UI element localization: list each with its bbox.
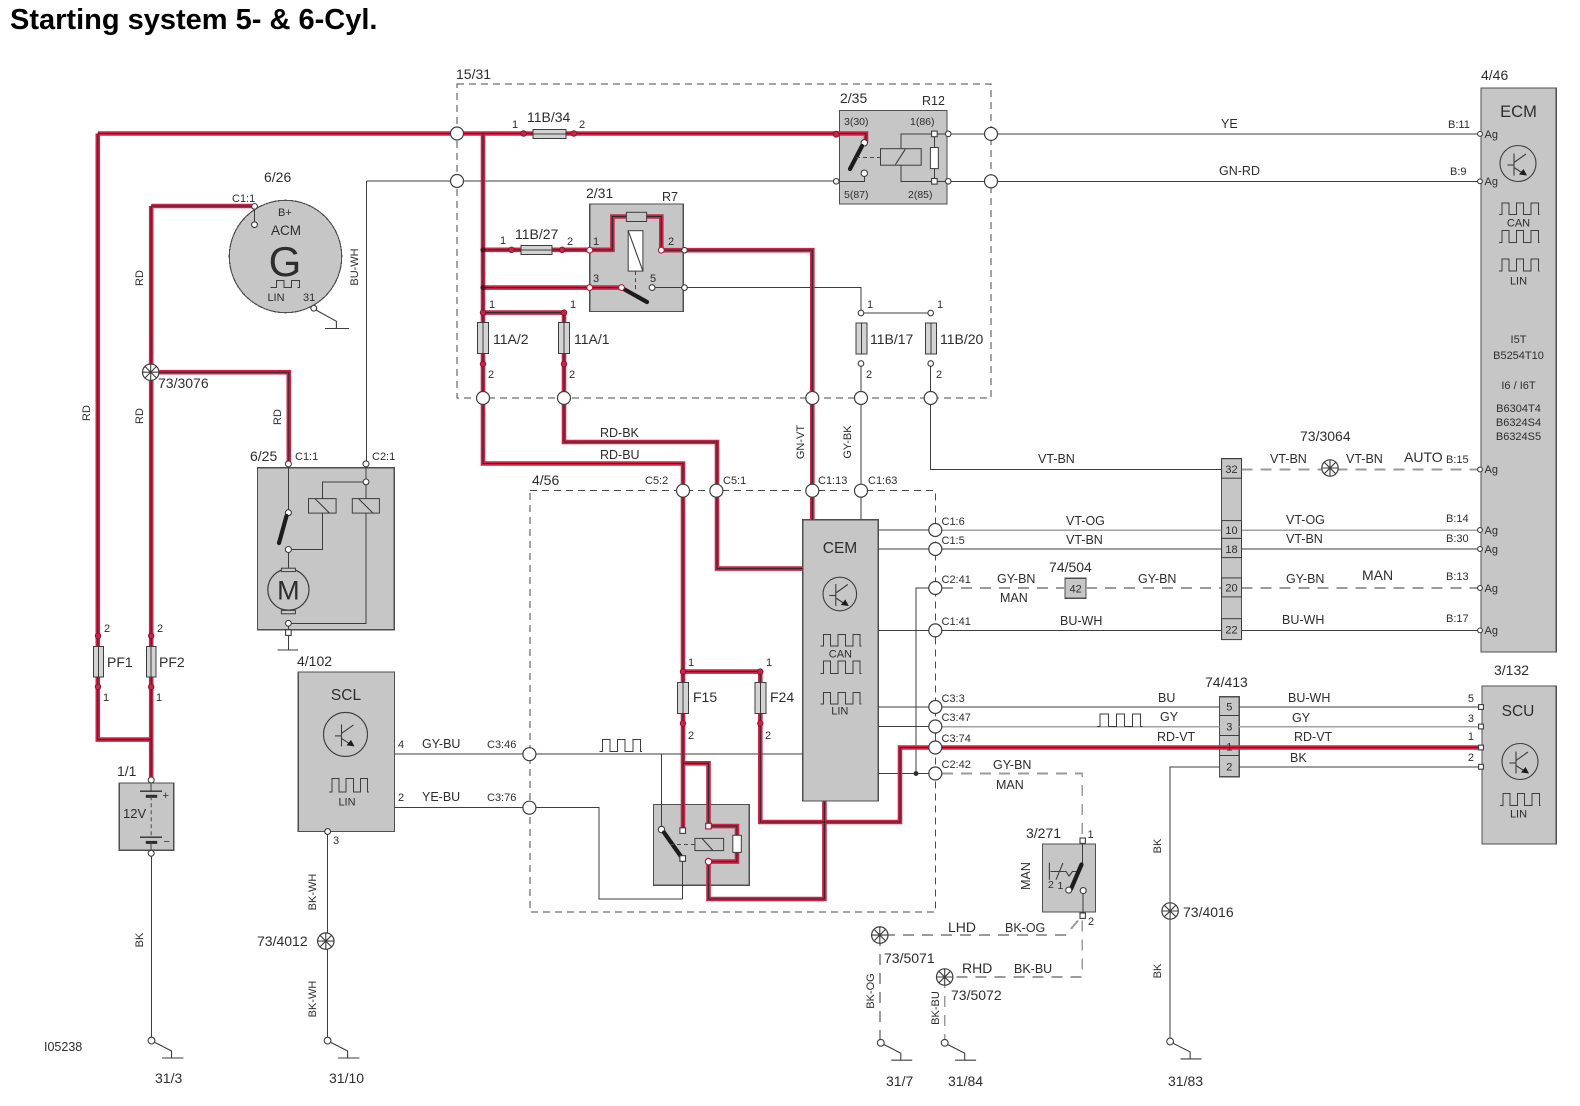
dashed wire BK-BU from splice 73/5072 to ground 31/84 [944, 977, 946, 1041]
svg-text:73/5071: 73/5071 [884, 950, 935, 966]
svg-text:1: 1 [489, 299, 495, 311]
svg-text:2: 2 [569, 369, 575, 381]
svg-text:C2:1: C2:1 [372, 451, 395, 463]
wire starter motor internal: C1:1 to switch [287, 466, 289, 513]
wire generator pin 31 to ground [315, 310, 336, 329]
node C3:47 [929, 720, 942, 733]
starter 6/25 hold-in coil [352, 499, 379, 513]
wire YE-BU from SCL pin 2 to relay switch [395, 808, 683, 900]
svg-text:CAN: CAN [1507, 218, 1530, 230]
svg-text:B6324S5: B6324S5 [1496, 431, 1541, 443]
wire 3/271 internal: pin 1 lead [1082, 844, 1084, 863]
splice 73/5071 [872, 927, 888, 943]
wire 2/35 internal: coil bottom to pin 2(85) [901, 165, 947, 181]
relay 2/31 top resistor [626, 212, 646, 221]
CEM transistor icon [823, 577, 857, 611]
wire RD link fuse F15 to fuse F24 pin 1 [683, 669, 760, 674]
svg-text:B:30: B:30 [1446, 533, 1469, 545]
wire GY from connector 74/413 pin 3 to SCU pin 3 [1239, 726, 1480, 728]
svg-text:2: 2 [1048, 879, 1054, 891]
svg-text:BK-OG: BK-OG [1005, 921, 1045, 935]
starter 6/25 case ground square [286, 630, 292, 636]
node C3:46 [523, 748, 536, 761]
splice 73/4012 [318, 933, 334, 949]
fuse 11B/27 terminals 1 and 2 [509, 247, 515, 253]
wire VT-OG from C1:6 to connector pin 10 [935, 529, 1221, 531]
svg-text:LIN: LIN [1510, 276, 1527, 288]
battery 1/1 terminals [148, 777, 154, 783]
SCU LIN icon [1500, 794, 1541, 806]
svg-text:2: 2 [579, 119, 585, 131]
switch 3/271 contacts [1066, 887, 1072, 893]
svg-text:GY-BN: GY-BN [1138, 572, 1176, 586]
svg-text:4/56: 4/56 [532, 472, 559, 488]
svg-text:C1:1: C1:1 [232, 193, 255, 205]
relay 2/35 resistor [930, 148, 938, 169]
svg-text:RD-BU: RD-BU [600, 448, 640, 462]
svg-text:1: 1 [867, 299, 873, 311]
wire starter internal: switch to motor [287, 550, 289, 570]
svg-text:31: 31 [303, 292, 315, 304]
wire from BU-WH up corner to relay 2/35 pin 5(87) [366, 180, 835, 182]
svg-text:31/83: 31/83 [1168, 1073, 1203, 1089]
svg-text:6/26: 6/26 [264, 169, 291, 185]
wire generator B+ terminal stub [254, 206, 256, 224]
svg-text:3: 3 [1226, 722, 1232, 734]
wire CEM C1:6 stub [878, 529, 935, 531]
svg-text:VT-BN: VT-BN [1066, 533, 1103, 547]
fuse 11B/20 [925, 323, 936, 354]
svg-text:1: 1 [512, 119, 518, 131]
svg-text:B:13: B:13 [1446, 571, 1469, 583]
svg-text:C3:3: C3:3 [942, 693, 965, 705]
svg-text:GY-BU: GY-BU [422, 737, 460, 751]
relay 2/35 edge pin circles [833, 179, 839, 185]
svg-text:GY: GY [1160, 710, 1179, 724]
svg-text:2: 2 [688, 730, 694, 742]
wire RD-VT from fuse F24 through CEM C3:74 and connector 74/413 pin 1 to SCU pin 1 [760, 672, 1482, 822]
node junction on 15/31 bottom edge (VT-BN wire) [924, 392, 937, 405]
svg-text:YE: YE [1221, 117, 1238, 131]
relay 2/35 switch blade [850, 146, 862, 169]
svg-text:R7: R7 [662, 190, 678, 204]
SCU pin 5 [1479, 705, 1484, 710]
connector 74/504 pin 42 box [1065, 578, 1086, 598]
svg-text:BK-BU: BK-BU [930, 991, 942, 1025]
svg-text:22: 22 [1225, 625, 1237, 637]
svg-text:GY-BN: GY-BN [997, 572, 1035, 586]
node C1:41 [929, 624, 942, 637]
SCU transistor icon [1502, 744, 1538, 780]
wire core lines of highlighted RD network [98, 134, 1482, 900]
junction dots on red feed [480, 247, 485, 252]
node junction on 15/31 right edge (YE wire) [985, 127, 998, 140]
svg-text:31/3: 31/3 [155, 1070, 182, 1086]
svg-text:11B/34: 11B/34 [527, 109, 571, 125]
relay 2/35 coil [881, 149, 922, 166]
node C5:1 [710, 484, 723, 497]
svg-text:1: 1 [937, 299, 943, 311]
fuse 11B/34 terminals 1 and 2 [521, 131, 527, 137]
svg-text:2: 2 [488, 369, 494, 381]
svg-text:ECM: ECM [1500, 103, 1537, 121]
svg-text:RD: RD [134, 408, 146, 424]
wire relay switch pivot lead to GY-BU net [661, 754, 663, 829]
node C2:42 [929, 767, 942, 780]
starter relay coil [695, 838, 724, 850]
ground bar generator 31 [325, 328, 349, 330]
pulse icon on GY-BU wire [599, 740, 642, 752]
svg-text:2: 2 [765, 730, 771, 742]
svg-text:3(30): 3(30) [844, 116, 869, 128]
svg-text:2: 2 [866, 369, 872, 381]
wire 2/35 internal: resistor branch [933, 134, 935, 181]
svg-text:C1:63: C1:63 [868, 475, 897, 487]
node C3:74 [929, 741, 942, 754]
svg-text:C3:47: C3:47 [942, 712, 971, 724]
svg-text:Ag: Ag [1485, 176, 1498, 188]
starter 6/25 C1:1 terminal [285, 461, 291, 467]
svg-text:C2:41: C2:41 [942, 574, 971, 586]
svg-text:4/102: 4/102 [297, 653, 332, 669]
fuse 11B/34 [533, 129, 566, 138]
svg-text:B:17: B:17 [1446, 613, 1469, 625]
ground 31/84 [941, 1039, 976, 1060]
node C1:5 [929, 543, 942, 556]
node junction on 15/31 bottom edge (fuse 11A/2 wire) [477, 392, 490, 405]
svg-text:B:14: B:14 [1446, 513, 1469, 525]
svg-text:MAN: MAN [1019, 862, 1033, 890]
svg-text:BK: BK [1152, 963, 1164, 978]
svg-text:LIN: LIN [1510, 809, 1527, 821]
svg-text:GY-BN: GY-BN [993, 758, 1031, 772]
relay 2/35 red input terminal [833, 131, 839, 137]
svg-text:Ag: Ag [1485, 525, 1498, 537]
node C3:76 [523, 801, 536, 814]
wire SCL pin 3 BK-WH to ground 31/10 [327, 832, 329, 1041]
svg-text:C1:6: C1:6 [942, 516, 965, 528]
switch 3/271 gear-shift icon [1049, 863, 1076, 880]
fuse PF2 [146, 646, 156, 677]
connector 74/413 cell borders and pin numbers [1219, 702, 1239, 774]
svg-text:4/46: 4/46 [1481, 67, 1508, 83]
svg-text:LIN: LIN [338, 797, 355, 809]
svg-text:C3:74: C3:74 [942, 733, 971, 745]
ECM pin B:30 [1478, 547, 1483, 552]
splice 73/5072 [937, 969, 953, 985]
wire RD left drop to fuse PF1 and battery link [98, 134, 151, 740]
svg-text:11A/2: 11A/2 [493, 331, 529, 347]
svg-text:1: 1 [500, 235, 506, 247]
starter 6/25 switch blade [279, 516, 287, 543]
node junction on 15/31 left edge (RD feed) [451, 127, 464, 140]
generator 6/26 ACM body [229, 200, 341, 312]
wire from relay 2/31 pin 5 to fuse 11B/17 pin 1 [684, 288, 861, 313]
svg-text:CAN: CAN [829, 649, 852, 661]
svg-text:BK-OG: BK-OG [865, 973, 877, 1008]
svg-text:C1:13: C1:13 [818, 475, 847, 487]
svg-text:M: M [277, 576, 300, 606]
svg-text:MAN: MAN [1000, 591, 1028, 605]
starter relay resistor [733, 835, 742, 852]
connector strip 74/413 (pins 5/3/1/2) [1219, 697, 1239, 777]
svg-text:BK: BK [134, 932, 146, 947]
svg-text:11B/20: 11B/20 [940, 331, 984, 347]
ground 31/7 [877, 1039, 912, 1060]
svg-text:2/35: 2/35 [840, 90, 867, 106]
wire VT-BN from C1:5 to connector pin 18 [935, 548, 1221, 550]
starter 6/25 C2:1 terminal [363, 461, 369, 467]
svg-text:GY: GY [1292, 711, 1311, 725]
svg-text:I6 / I6T: I6 / I6T [1501, 380, 1536, 392]
svg-text:12V: 12V [123, 806, 146, 821]
svg-text:BU-WH: BU-WH [1282, 613, 1324, 627]
ECM pin B:13 [1478, 586, 1483, 591]
wire starter internal: pull-in coil to switch contact [288, 513, 322, 549]
switch 3/271 blade [1071, 865, 1082, 890]
fuse 11B/17 terminals 1 and 2 [858, 310, 864, 316]
wire CEM C2:42 stub [878, 773, 935, 775]
svg-text:F15: F15 [693, 689, 717, 705]
wire starter internal: C2:1 down to coils junction [365, 466, 367, 499]
svg-text:2: 2 [104, 623, 110, 635]
svg-text:5: 5 [1468, 693, 1474, 705]
svg-text:20: 20 [1225, 583, 1237, 595]
wire BK from SCU pin 2 to connector 74/413 pin 2 [1239, 766, 1480, 768]
svg-text:SCL: SCL [331, 687, 362, 704]
node junction on 15/31 bottom edge (GY-BK wire) [855, 392, 868, 405]
starter relay blade-coil dashed link [670, 844, 695, 846]
svg-text:1: 1 [766, 657, 772, 669]
svg-text:B6324S4: B6324S4 [1496, 417, 1541, 429]
svg-text:VT-BN: VT-BN [1270, 452, 1307, 466]
svg-text:C3:46: C3:46 [487, 739, 516, 751]
SCU pin 2 [1479, 764, 1484, 769]
svg-text:2: 2 [398, 792, 404, 804]
svg-text:RD: RD [134, 270, 146, 286]
wire BK from connector 74/413 pin 2 to ground 31/83 [1170, 767, 1219, 1042]
svg-text:2: 2 [1226, 762, 1232, 774]
starter relay terminals (squares) [680, 828, 686, 834]
svg-text:2(85): 2(85) [908, 189, 933, 201]
svg-text:31/7: 31/7 [886, 1073, 913, 1089]
svg-text:2: 2 [668, 236, 674, 248]
ECM pin B:9 [1478, 179, 1483, 184]
splice 73/3064 [1322, 460, 1338, 476]
starter relay switch blade [664, 833, 681, 857]
relay 2/35 blade-coil dashed link [856, 157, 881, 159]
relay 2/31 coil-blade dashed link [635, 271, 637, 290]
node C5:2 [677, 484, 690, 497]
pulse icon on GY wire [1097, 714, 1142, 726]
svg-text:42: 42 [1069, 584, 1081, 596]
svg-text:1: 1 [593, 236, 599, 248]
svg-text:B:9: B:9 [1450, 166, 1467, 178]
svg-text:C1:5: C1:5 [942, 535, 965, 547]
svg-text:Ag: Ag [1485, 544, 1498, 556]
svg-text:CEM: CEM [823, 540, 857, 557]
svg-text:VT-BN: VT-BN [1038, 452, 1075, 466]
svg-text:74/413: 74/413 [1205, 674, 1248, 690]
wire battery minus BK to ground 31/3 [151, 853, 153, 1040]
fuse F15 terminals 1 and 2 [680, 669, 686, 675]
wire BU from C3:3 to connector 74/413 pin 5 [935, 706, 1219, 708]
svg-text:C5:2: C5:2 [645, 475, 668, 487]
wire relay switch lower contact lead [682, 859, 684, 900]
svg-text:3: 3 [333, 835, 339, 847]
svg-text:Ag: Ag [1485, 464, 1498, 476]
wire BU-WH from connector pin 22 to ECM B:17 [1242, 629, 1480, 631]
wire GY-BU from SCL pin 4 to CEM C3:46 [395, 753, 803, 755]
control unit ECM 4/46 body [1481, 88, 1556, 652]
svg-text:6/25: 6/25 [250, 448, 277, 464]
svg-text:VT-OG: VT-OG [1286, 513, 1325, 527]
svg-text:5(87): 5(87) [844, 189, 869, 201]
wire VT-OG from connector pin 10 to ECM B:14 [1242, 529, 1480, 531]
svg-text:B:15: B:15 [1446, 454, 1469, 466]
svg-text:74/504: 74/504 [1049, 559, 1092, 575]
svg-text:BU: BU [1158, 691, 1175, 705]
fuse F24 terminals 1 and 2 [758, 669, 764, 675]
svg-text:5: 5 [1226, 702, 1232, 714]
wire starter motor low side to case ground [287, 623, 289, 649]
node C1:13 [806, 484, 819, 497]
ground 31/83 [1167, 1038, 1202, 1059]
relay box 2/31 (R7) [590, 204, 684, 311]
wire CEM C1:41 stub [878, 629, 935, 631]
wire VT-BN from fuse 11B/20 pin 2 to connector pin 32 [931, 364, 1222, 470]
dashed wire BK-OG LHD from 3/271 pin 2 to splice 73/5071 [880, 921, 1078, 936]
svg-text:ACM: ACM [271, 223, 301, 238]
ECM pin B:14 [1478, 528, 1483, 533]
svg-text:BU-WH: BU-WH [1288, 691, 1330, 705]
relay 2/35 pin squares 1(86) 2(85) [932, 131, 938, 137]
svg-text:PF2: PF2 [159, 654, 185, 670]
wire starter internal: hold coil to motor low side [288, 513, 366, 623]
connector 74/- cell borders and pin numbers [1222, 459, 1242, 640]
svg-text:R12: R12 [922, 94, 945, 108]
relay 2/35 switch contacts [861, 140, 867, 146]
starter relay coil red terminals [706, 823, 712, 829]
starter relay (inside 4/56 area) body [654, 804, 750, 885]
wire RD link to fuse 11A/1 top [483, 310, 564, 315]
wire RD main feed from battery net to relay 2/35 pin 3(30) [98, 134, 866, 142]
svg-text:2: 2 [1468, 752, 1474, 764]
wire BU-WH from C1:41 to connector pin 22 [935, 629, 1221, 631]
wire YE from relay 2/35 pin 1(86) to ECM B:11 [947, 133, 1480, 135]
wire GN-VT from relay 2/31 pin 2 to CEM C1:13 [661, 250, 812, 520]
CEM CAN icon [820, 635, 861, 647]
wire 2/35 internal: lower contact to pin 5(87) [840, 176, 865, 181]
fuse 11B/27 [521, 245, 552, 254]
ECM pin B:15 [1478, 467, 1483, 472]
dashed box 15/31 [457, 84, 991, 398]
svg-text:SCU: SCU [1502, 703, 1535, 720]
battery 1/1 plates [140, 790, 162, 792]
node junction on 15/31 bottom edge (GN-VT wire) [806, 392, 819, 405]
node C2:41 [929, 582, 942, 595]
svg-text:LIN: LIN [831, 706, 848, 718]
svg-text:10: 10 [1225, 525, 1237, 537]
wire 3/271 internal: pin 2 lead [1082, 891, 1084, 916]
svg-text:BK-BU: BK-BU [1014, 962, 1052, 976]
svg-text:B6304T4: B6304T4 [1496, 403, 1541, 415]
svg-text:B:11: B:11 [1448, 119, 1470, 131]
svg-text:AUTO: AUTO [1404, 449, 1443, 465]
battery 1/1 body [119, 783, 174, 850]
wire GN-RD from relay 2/35 pin 2(85) to ECM B:9 [947, 180, 1480, 182]
svg-text:1: 1 [1468, 731, 1474, 743]
wire RD drop from main feed through fuse 11A/2 and RD-BU to CEM C5:2 and relay switch [483, 134, 683, 831]
svg-text:1: 1 [1226, 742, 1232, 754]
wire C2:41 branch from C2:42 net [916, 588, 935, 774]
fuse F24 [755, 683, 766, 714]
node junction on 15/31 bottom edge (fuse 11A/1 wire) [558, 392, 571, 405]
starter 6/25 pull-in coil [309, 499, 337, 513]
ground 31/10 [324, 1037, 359, 1058]
fuse 11A/2 terminals 1 and 2 [480, 310, 486, 316]
svg-text:73/4016: 73/4016 [1183, 904, 1234, 920]
svg-text:Ag: Ag [1485, 625, 1498, 637]
wire link fuse 11B/17 pin1 to fuse 11B/20 pin 1 [861, 312, 931, 314]
svg-text:MAN: MAN [996, 778, 1024, 792]
svg-text:B5254T10: B5254T10 [1493, 350, 1544, 362]
wire RD starter relay coil loop [709, 826, 738, 862]
svg-text:I05238: I05238 [44, 1040, 82, 1054]
svg-text:RD: RD [272, 409, 284, 425]
svg-text:18: 18 [1225, 544, 1237, 556]
wire RD generator 6/26 B+ feed [151, 204, 254, 209]
dashed box 4/56 [530, 491, 935, 912]
splice 73/3076 [143, 364, 159, 380]
svg-text:32: 32 [1225, 464, 1237, 476]
svg-text:5: 5 [650, 273, 656, 285]
fuse 11A/1 [559, 323, 570, 354]
fuse F15 [678, 683, 689, 714]
svg-text:2/31: 2/31 [586, 185, 613, 201]
ECM CAN icon [1499, 203, 1540, 215]
svg-text:RD-VT: RD-VT [1157, 730, 1196, 744]
svg-text:11A/1: 11A/1 [574, 331, 610, 347]
svg-text:Starting system 5- & 6-Cyl.: Starting system 5- & 6-Cyl. [10, 4, 377, 36]
svg-text:G: G [269, 238, 302, 285]
connector strip 74/- (pins 32/10/18/20/22) [1222, 459, 1242, 640]
svg-text:BK-WH: BK-WH [307, 981, 319, 1018]
svg-text:−: − [164, 836, 170, 848]
svg-text:BK-WH: BK-WH [307, 874, 319, 911]
svg-text:B+: B+ [278, 207, 292, 219]
starter 6/25 switch contacts [285, 510, 291, 516]
svg-text:RD: RD [81, 405, 93, 421]
svg-text:VT-BN: VT-BN [1346, 452, 1383, 466]
svg-text:2: 2 [567, 236, 573, 248]
splice 73/4016 [1162, 903, 1178, 919]
svg-text:MAN: MAN [1362, 567, 1393, 583]
svg-text:YE-BU: YE-BU [422, 790, 460, 804]
svg-text:BK: BK [1290, 751, 1307, 765]
svg-text:LIN: LIN [267, 292, 284, 304]
node C3:3 [929, 701, 942, 714]
svg-text:1: 1 [1088, 829, 1094, 841]
svg-text:RHD: RHD [962, 960, 992, 976]
wire CEM C3:47 stub [878, 726, 935, 728]
wire 2/35 internal: coil top to pin 1(86) [901, 134, 947, 149]
svg-text:C1:1: C1:1 [295, 451, 318, 463]
generator 6/26 terminal circles [252, 204, 258, 210]
svg-text:PF1: PF1 [107, 654, 133, 670]
svg-text:73/4012: 73/4012 [257, 933, 308, 949]
generator 6/26 LIN pulse icon [271, 281, 300, 288]
